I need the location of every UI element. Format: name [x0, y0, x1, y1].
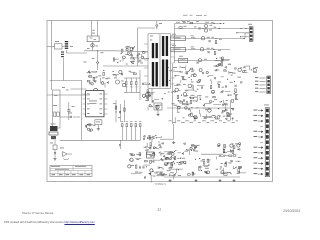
- opto / TL431 cluster: [143, 135, 164, 183]
- connector CN803 (4-pin top): [248, 24, 253, 42]
- rail5 end cluster: [216, 57, 231, 66]
- wire: feedback bus: [60, 139, 141, 141]
- degauss thermistor branch: [50, 140, 57, 160]
- wire: mains feed horizontal: [47, 94, 90, 96]
- standby transistor cluster: [159, 150, 188, 179]
- wire: rectified rail: [84, 50, 113, 52]
- resistor row R81x: [121, 121, 141, 140]
- footer: manual title: [22, 212, 53, 215]
- AC inlet filter box P801: [53, 90, 61, 128]
- wire: mid bottom: [201, 153, 223, 155]
- IC801 pin wires left: [83, 94, 86, 114]
- wire: drain rail: [113, 50, 148, 53]
- wire: left feed y80.5: [50, 80, 82, 82]
- clamp diode D803: [156, 21, 163, 29]
- capacitor C801: [60, 113, 80, 119]
- right mid parts: [242, 66, 258, 73]
- label cluster near inlet: [62, 62, 87, 91]
- connector CN805 (mid right): [267, 76, 271, 94]
- secondary vertical bus: [174, 24, 176, 64]
- wire: left feed y89: [71, 88, 87, 90]
- choke with bands L801: [61, 41, 87, 57]
- secondary regulator cluster A: [168, 65, 243, 91]
- lower mid sparse: [188, 158, 211, 175]
- parts below transformer: [146, 92, 166, 111]
- left lower parts: [128, 153, 143, 174]
- wire: AC neutral vertical: [51, 21, 53, 91]
- connector CN806 (tall right): [264, 105, 270, 177]
- B+ adjust parts: [183, 143, 199, 155]
- vertical cap C803: [67, 102, 74, 120]
- rail 5: [175, 56, 230, 64]
- schematic frame: [47, 21, 273, 182]
- relay RL801: [87, 21, 99, 42]
- label row below frame top right: [176, 22, 214, 23]
- page number: [158, 208, 162, 212]
- wire: bottom rail: [164, 176, 240, 178]
- parts above resistor grid: [113, 70, 137, 76]
- protection circuit cluster: [216, 143, 246, 176]
- T801 left pin stubs: [144, 44, 148, 83]
- rail 3: [171, 33, 250, 44]
- sense box below IC801: [95, 120, 102, 131]
- AC plug connector blob: [49, 124, 58, 140]
- wire: mid vertical bus: [172, 64, 174, 124]
- opto coupler box: [147, 152, 155, 158]
- primary small parts cluster: [87, 70, 111, 87]
- CN806 pin arrows: [254, 110, 264, 175]
- label row y121: [169, 120, 238, 123]
- bridge diode D801: [92, 51, 103, 70]
- wires into CN803: [236, 32, 249, 34]
- resistor grid R820-822: [124, 70, 140, 100]
- line filter box LF801: [47, 41, 65, 49]
- rail 4: [171, 45, 230, 55]
- footer: pdf creation line: [4, 221, 95, 224]
- mosfet Q801 cluster: [113, 46, 149, 65]
- cap on feedback bus: [119, 140, 120, 149]
- aux winding box below T801: [152, 88, 162, 116]
- snubber diode D805: [127, 51, 131, 55]
- rail 1 (top): [175, 21, 225, 27]
- CN805 pin arrows: [255, 77, 266, 92]
- transformer T801: [148, 34, 171, 89]
- electrolytic caps C810/C811: [114, 78, 126, 87]
- rail 2: [175, 26, 250, 32]
- secondary regulator cluster B: [168, 88, 238, 123]
- caption YP0502-S: [155, 183, 166, 186]
- misc labels above frame: [183, 15, 207, 16]
- fuse F801: [87, 42, 98, 51]
- title block table: [50, 165, 92, 176]
- wire: gate feed: [103, 65, 148, 67]
- parts below IC801: [85, 124, 95, 132]
- wire: standby bus: [160, 138, 174, 140]
- degauss coil symbol: [60, 148, 72, 160]
- pwm controller IC801: [86, 88, 104, 116]
- parts right of resistor grid: [142, 83, 151, 101]
- vertical parts column right of IC: [113, 100, 125, 122]
- T801 right pin stubs: [171, 38, 175, 84]
- ground symbols bottom: [168, 141, 235, 182]
- IC801 pin wires right: [104, 94, 108, 114]
- footer: date: [283, 209, 300, 213]
- wire: mid horizontal: [167, 107, 230, 109]
